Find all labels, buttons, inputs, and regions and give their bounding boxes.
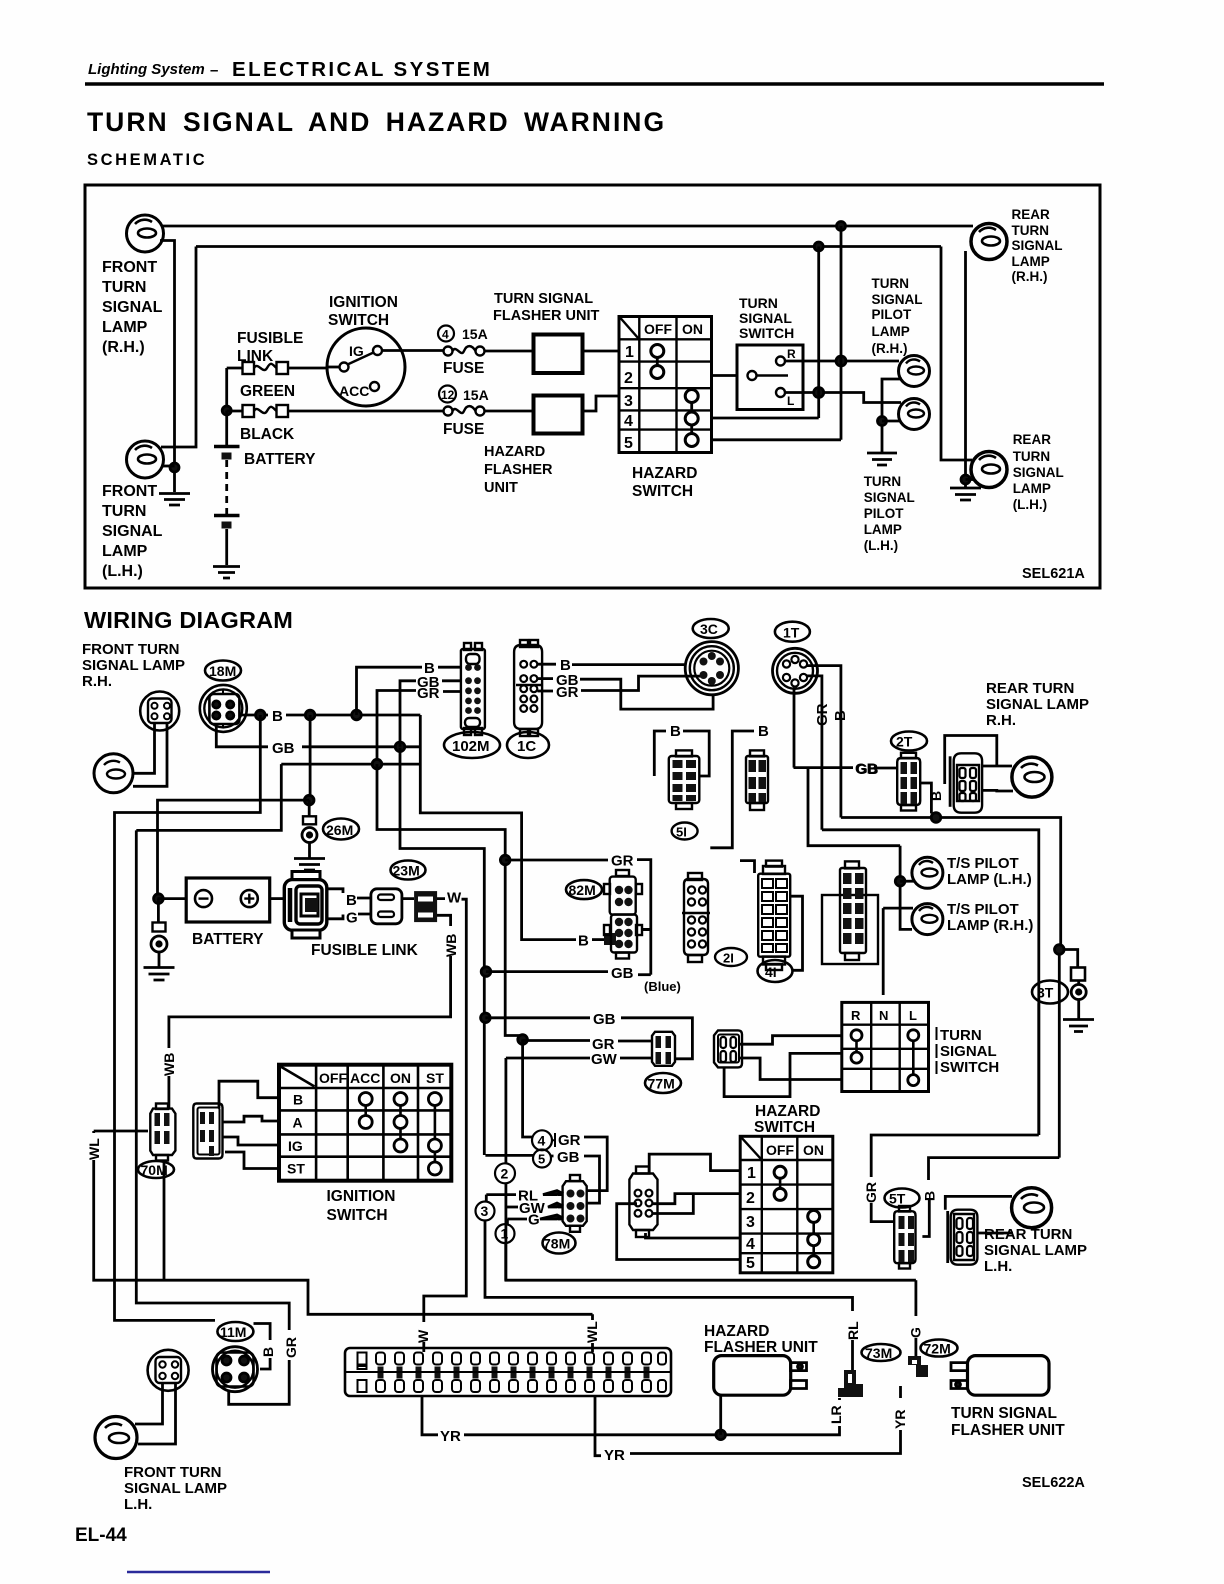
svg-text:5: 5: [624, 435, 633, 452]
svg-text:15A: 15A: [463, 387, 489, 403]
svg-text:REAR: REAR: [1013, 432, 1052, 447]
svg-text:72M: 72M: [924, 1341, 951, 1357]
svg-text:SIGNAL LAMP: SIGNAL LAMP: [986, 696, 1089, 713]
svg-text:TURN SIGNAL: TURN SIGNAL: [951, 1405, 1057, 1422]
svg-text:FLASHER UNIT: FLASHER UNIT: [493, 308, 599, 324]
svg-text:ACC: ACC: [339, 383, 369, 399]
svg-text:ST: ST: [287, 1161, 305, 1177]
svg-text:SIGNAL: SIGNAL: [864, 490, 915, 505]
svg-text:TURN: TURN: [102, 279, 146, 296]
svg-text:REAR TURN: REAR TURN: [984, 1226, 1072, 1243]
svg-text:EL-44: EL-44: [75, 1525, 127, 1546]
svg-text:SIGNAL: SIGNAL: [940, 1043, 997, 1060]
svg-text:HAZARD: HAZARD: [484, 444, 545, 460]
svg-text:TURN: TURN: [872, 276, 910, 291]
svg-text:(R.H.): (R.H.): [102, 339, 145, 356]
svg-text:LAMP: LAMP: [1012, 254, 1050, 269]
svg-text:PILOT: PILOT: [864, 506, 905, 521]
svg-text:GB: GB: [611, 965, 634, 982]
svg-text:GB: GB: [557, 1149, 580, 1166]
svg-text:TURN: TURN: [1012, 223, 1050, 238]
svg-text:Lighting System: Lighting System: [88, 61, 205, 78]
svg-text:B: B: [272, 708, 283, 725]
svg-text:R.H.: R.H.: [986, 712, 1016, 729]
svg-text:L: L: [909, 1008, 917, 1023]
svg-text:BLACK: BLACK: [240, 426, 295, 443]
svg-text:GR: GR: [611, 853, 634, 870]
svg-text:5I: 5I: [676, 825, 687, 840]
svg-text:GB: GB: [593, 1011, 616, 1028]
svg-text:FRONT TURN: FRONT TURN: [82, 641, 180, 658]
svg-text:GR: GR: [558, 1132, 581, 1149]
svg-text:LAMP (R.H.): LAMP (R.H.): [947, 917, 1033, 934]
svg-text:LAMP: LAMP: [102, 319, 148, 336]
svg-text:FRONT TURN: FRONT TURN: [124, 1464, 222, 1481]
svg-text:OFF: OFF: [766, 1142, 794, 1158]
svg-text:RL: RL: [845, 1321, 861, 1340]
svg-text:SEL621A: SEL621A: [1022, 566, 1085, 582]
svg-text:(R.H.): (R.H.): [872, 341, 908, 356]
svg-text:SWITCH: SWITCH: [327, 1207, 388, 1224]
svg-text:TURN: TURN: [864, 474, 902, 489]
svg-text:ON: ON: [682, 321, 703, 337]
svg-text:2: 2: [501, 1166, 509, 1182]
svg-text:WB: WB: [443, 934, 459, 957]
svg-text:(Blue): (Blue): [644, 979, 681, 994]
svg-text:R: R: [851, 1008, 861, 1023]
svg-text:B: B: [578, 933, 589, 950]
svg-text:B: B: [670, 723, 681, 740]
svg-text:FUSIBLE LINK: FUSIBLE LINK: [311, 942, 419, 959]
svg-text:REAR: REAR: [1012, 207, 1051, 222]
svg-text:L.H.: L.H.: [984, 1258, 1012, 1275]
svg-text:GR: GR: [556, 684, 579, 701]
svg-text:SWITCH: SWITCH: [754, 1119, 815, 1136]
svg-text:12: 12: [441, 388, 455, 402]
svg-text:5T: 5T: [889, 1191, 906, 1207]
svg-text:5: 5: [538, 1152, 545, 1167]
svg-text:L.H.: L.H.: [124, 1496, 152, 1513]
svg-text:OFF: OFF: [319, 1070, 347, 1086]
svg-text:IG: IG: [349, 343, 364, 359]
svg-text:FRONT: FRONT: [102, 259, 157, 276]
svg-text:FUSIBLE: FUSIBLE: [237, 330, 303, 347]
svg-text:SIGNAL: SIGNAL: [872, 292, 923, 307]
svg-text:ST: ST: [426, 1070, 444, 1086]
svg-text:YR: YR: [892, 1410, 908, 1429]
svg-text:SEL622A: SEL622A: [1022, 1475, 1085, 1491]
svg-text:4: 4: [538, 1133, 546, 1149]
svg-text:3: 3: [481, 1203, 489, 1219]
svg-text:R.H.: R.H.: [82, 673, 112, 690]
svg-text:SWITCH: SWITCH: [632, 483, 693, 500]
svg-text:WB: WB: [161, 1053, 177, 1076]
svg-text:IGNITION: IGNITION: [329, 294, 398, 311]
svg-text:T/S PILOT: T/S PILOT: [947, 901, 1019, 918]
svg-text:HAZARD: HAZARD: [704, 1323, 769, 1340]
svg-text:SIGNAL: SIGNAL: [102, 523, 163, 540]
svg-text:78M: 78M: [543, 1236, 570, 1252]
svg-text:1T: 1T: [783, 625, 800, 641]
svg-text:FLASHER UNIT: FLASHER UNIT: [704, 1339, 818, 1356]
svg-text:LAMP: LAMP: [872, 324, 910, 339]
svg-text:2: 2: [624, 370, 633, 387]
svg-text:FLASHER: FLASHER: [484, 462, 553, 478]
svg-text:SIGNAL: SIGNAL: [102, 299, 163, 316]
svg-text:YR: YR: [440, 1428, 461, 1445]
svg-text:82M: 82M: [569, 882, 596, 898]
svg-text:GB: GB: [272, 740, 295, 757]
svg-text:FUSE: FUSE: [443, 421, 484, 438]
svg-text:LR: LR: [828, 1405, 844, 1424]
svg-text:B: B: [346, 892, 357, 909]
svg-text:15A: 15A: [462, 326, 488, 342]
svg-text:SWITCH: SWITCH: [328, 312, 389, 329]
svg-text:HAZARD: HAZARD: [632, 465, 697, 482]
svg-text:4: 4: [746, 1236, 755, 1253]
svg-text:TURN SIGNAL: TURN SIGNAL: [494, 291, 593, 307]
svg-text:ACC: ACC: [350, 1070, 380, 1086]
svg-text:4I: 4I: [765, 964, 777, 980]
svg-text:GR: GR: [863, 1182, 879, 1203]
svg-text:(L.H.): (L.H.): [864, 538, 899, 553]
svg-text:(R.H.): (R.H.): [1012, 269, 1048, 284]
svg-text:LAMP: LAMP: [102, 543, 148, 560]
svg-text:BATTERY: BATTERY: [192, 931, 264, 948]
svg-text:BATTERY: BATTERY: [244, 451, 316, 468]
svg-text:B: B: [928, 791, 944, 801]
svg-text:IG: IG: [288, 1138, 303, 1154]
svg-text:SIGNAL: SIGNAL: [1012, 238, 1063, 253]
svg-text:HAZARD: HAZARD: [755, 1103, 820, 1120]
svg-text:SCHEMATIC: SCHEMATIC: [87, 151, 207, 169]
svg-text:UNIT: UNIT: [484, 480, 518, 496]
svg-text:G: G: [528, 1212, 540, 1229]
svg-text:3C: 3C: [700, 621, 718, 637]
svg-text:77M: 77M: [648, 1076, 675, 1092]
svg-text:26M: 26M: [326, 822, 353, 838]
svg-text:YR: YR: [604, 1447, 625, 1464]
svg-text:WL: WL: [86, 1138, 102, 1160]
svg-text:SWITCH: SWITCH: [940, 1059, 999, 1076]
svg-text:2: 2: [746, 1190, 755, 1207]
svg-text:GW: GW: [591, 1051, 618, 1068]
svg-text:IGNITION: IGNITION: [327, 1188, 396, 1205]
svg-text:PILOT: PILOT: [872, 307, 913, 322]
svg-text:G: G: [346, 910, 358, 927]
svg-text:4: 4: [442, 328, 449, 342]
svg-text:1: 1: [625, 344, 634, 361]
svg-text:(L.H.): (L.H.): [1013, 497, 1047, 512]
svg-text:4: 4: [624, 413, 633, 430]
svg-text:N: N: [879, 1008, 888, 1023]
svg-text:WL: WL: [584, 1321, 600, 1343]
svg-text:3: 3: [746, 1214, 755, 1231]
svg-text:1: 1: [747, 1165, 756, 1182]
svg-text:FUSE: FUSE: [443, 360, 484, 377]
svg-text:B: B: [293, 1092, 303, 1108]
svg-text:TURN: TURN: [1013, 449, 1050, 464]
svg-text:TURN: TURN: [940, 1027, 982, 1044]
svg-text:ON: ON: [803, 1142, 824, 1158]
svg-text:A: A: [293, 1115, 303, 1131]
svg-text:–: –: [210, 62, 218, 79]
svg-text:2I: 2I: [723, 951, 734, 966]
svg-text:G: G: [908, 1327, 924, 1338]
svg-text:23M: 23M: [393, 863, 420, 879]
svg-text:FLASHER UNIT: FLASHER UNIT: [951, 1422, 1065, 1439]
svg-text:R: R: [787, 347, 796, 361]
svg-text:FRONT: FRONT: [102, 483, 157, 500]
svg-text:1: 1: [501, 1226, 509, 1242]
svg-text:73M: 73M: [865, 1345, 892, 1361]
svg-text:B: B: [260, 1347, 276, 1357]
svg-text:3T: 3T: [1037, 985, 1054, 1001]
svg-text:WIRING DIAGRAM: WIRING DIAGRAM: [84, 607, 293, 633]
svg-text:GR: GR: [814, 703, 831, 726]
svg-text:TURN: TURN: [739, 295, 778, 311]
svg-text:SIGNAL: SIGNAL: [1013, 465, 1064, 480]
svg-text:T/S PILOT: T/S PILOT: [947, 855, 1019, 872]
svg-text:TURN: TURN: [102, 503, 146, 520]
svg-text:B: B: [922, 1191, 938, 1201]
svg-text:5: 5: [746, 1255, 755, 1272]
svg-text:GR: GR: [283, 1337, 299, 1358]
svg-text:OFF: OFF: [644, 321, 672, 337]
svg-text:GR: GR: [417, 685, 440, 702]
svg-text:1C: 1C: [517, 738, 536, 755]
svg-text:LAMP (L.H.): LAMP (L.H.): [947, 871, 1032, 888]
svg-text:SIGNAL: SIGNAL: [739, 310, 792, 326]
svg-text:W: W: [447, 890, 462, 907]
svg-text:L: L: [787, 394, 794, 408]
svg-text:102M: 102M: [452, 738, 490, 755]
svg-text:18M: 18M: [209, 663, 236, 679]
svg-text:SWITCH: SWITCH: [739, 325, 794, 341]
svg-text:11M: 11M: [220, 1324, 246, 1340]
svg-text:SIGNAL LAMP: SIGNAL LAMP: [82, 657, 185, 674]
svg-text:GREEN: GREEN: [240, 383, 295, 400]
svg-text:(L.H.): (L.H.): [102, 563, 143, 580]
svg-text:B: B: [758, 723, 769, 740]
svg-text:REAR TURN: REAR TURN: [986, 680, 1074, 697]
svg-text:W: W: [415, 1329, 431, 1343]
svg-text:SIGNAL LAMP: SIGNAL LAMP: [984, 1242, 1087, 1259]
svg-text:3: 3: [624, 393, 633, 410]
svg-text:B: B: [832, 710, 849, 721]
svg-text:TURN SIGNAL AND HAZARD WARNING: TURN SIGNAL AND HAZARD WARNING: [87, 107, 666, 137]
svg-text:2T: 2T: [896, 734, 913, 750]
svg-text:LAMP: LAMP: [1013, 481, 1051, 496]
svg-text:ON: ON: [390, 1070, 411, 1086]
svg-text:SIGNAL LAMP: SIGNAL LAMP: [124, 1480, 227, 1497]
svg-text:ELECTRICAL SYSTEM: ELECTRICAL SYSTEM: [232, 58, 492, 81]
svg-text:LAMP: LAMP: [864, 522, 902, 537]
